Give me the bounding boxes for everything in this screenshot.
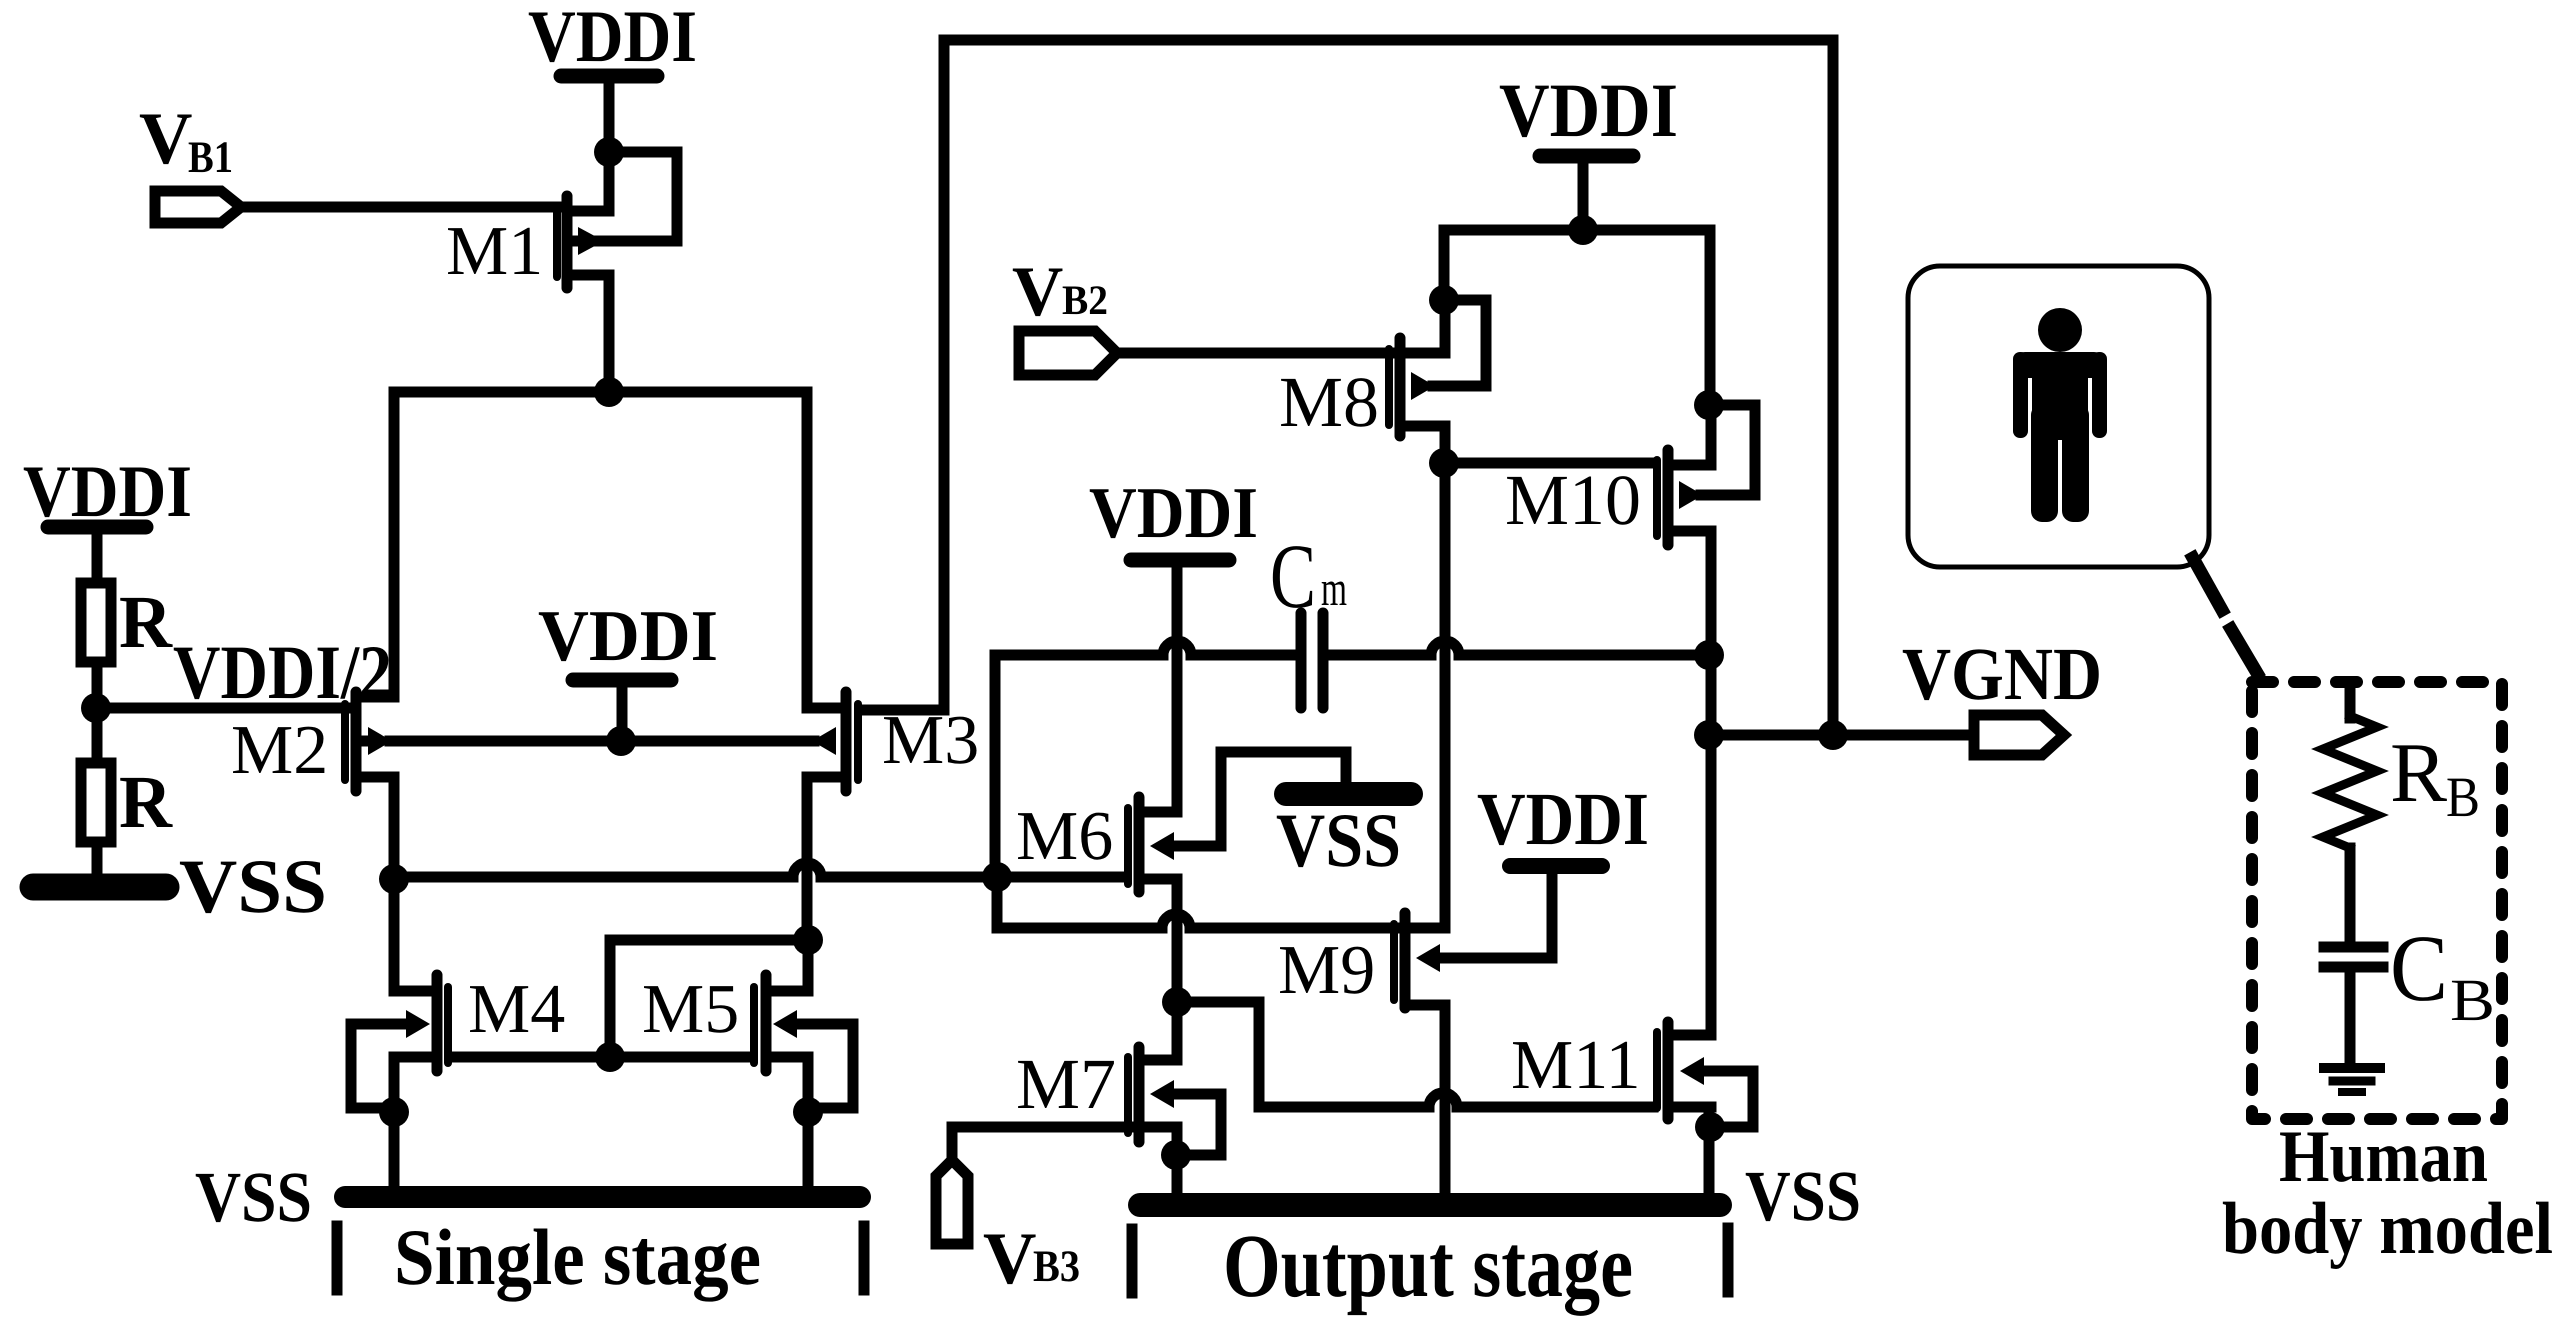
- resistor R (upper): [81, 583, 111, 662]
- wire VDDI/2 to M2 gate: [96, 703, 345, 714]
- label M10: [1505, 460, 1641, 540]
- label VSS (output stage): [1745, 1156, 1861, 1236]
- dashed box human body model: [2252, 682, 2502, 1119]
- label VDDI (divider): [23, 451, 192, 533]
- boundary tick left (single stage): [332, 1226, 343, 1290]
- wire M5 drain up to node F: [803, 940, 814, 991]
- boundary tick right (output stage): [1723, 1228, 1734, 1292]
- wire M8 drain chain down to M9: [1440, 463, 1451, 925]
- boundary tick right (single stage): [859, 1226, 870, 1290]
- svg-text:VDDI: VDDI: [1477, 778, 1649, 861]
- label Single stage: [394, 1214, 761, 1302]
- wire top feedback horizontal: [944, 40, 1833, 735]
- callout tail: [2193, 558, 2222, 610]
- node K (M7 source): [1161, 1140, 1191, 1170]
- svg-text:C: C: [1270, 525, 1316, 627]
- wire R1 to node: [92, 667, 103, 708]
- svg-text:VDDI/2: VDDI/2: [173, 629, 392, 715]
- wire M2 drain down: [389, 777, 400, 879]
- wire M8 bulk loop: [1433, 300, 1486, 386]
- wire M11 drain up to VGND node: [1706, 735, 1717, 1035]
- ground symbol (CB): [2324, 1068, 2380, 1092]
- label VB3: [983, 1218, 1080, 1300]
- ground VSS (output stage): [1140, 1193, 1720, 1217]
- label VDDI (M9 bulk): [1477, 778, 1649, 861]
- node I (M5 source): [793, 1097, 823, 1127]
- label M6: [1016, 798, 1113, 875]
- label VDDI (top left): [528, 0, 697, 78]
- wire bulk line to M3: [621, 736, 814, 747]
- svg-text:B1: B1: [188, 132, 233, 182]
- wire M3 drain down with hop: [802, 777, 813, 940]
- power symbol VDDI (middle): [573, 680, 671, 741]
- svg-text:VSS: VSS: [179, 843, 327, 929]
- transistor M6: [1128, 797, 1177, 892]
- svg-text:V: V: [1012, 253, 1063, 331]
- svg-text:R: R: [119, 581, 173, 664]
- svg-text:V: V: [983, 1218, 1036, 1300]
- power symbol VDDI (above M6): [1131, 553, 1229, 568]
- wire node N to M10 gate: [1444, 458, 1653, 469]
- wire M4 bulk loop: [351, 1024, 408, 1108]
- transistor M1: [557, 196, 609, 288]
- node P (M11 source): [1695, 1112, 1725, 1142]
- power symbol VDDI (resistor divider): [48, 527, 146, 578]
- wire M6 bulk to VSS symbol: [1172, 752, 1346, 846]
- node G (M4 source): [379, 1097, 409, 1127]
- svg-text:R: R: [2390, 726, 2447, 820]
- svg-text:M1: M1: [446, 213, 543, 290]
- node N (M8 drain / M10 gate): [1429, 448, 1459, 478]
- dashed connector: [2231, 629, 2257, 673]
- wire M4 drain up to node D: [389, 879, 400, 991]
- svg-text:M7: M7: [1016, 1044, 1116, 1124]
- wire node J to M11 gate: [1177, 1002, 1653, 1107]
- label M5: [642, 971, 739, 1048]
- svg-text:V: V: [139, 98, 192, 180]
- transistor M10: [1657, 450, 1711, 545]
- label M3: [882, 702, 979, 779]
- wire M5 source down: [803, 1057, 814, 1188]
- wire left branch down to M2 source: [389, 392, 400, 697]
- wire R2 to VSS: [92, 845, 103, 874]
- wire M10 drain down: [1706, 531, 1717, 655]
- node S (feedback tap): [1818, 720, 1848, 750]
- ground VSS (single stage): [345, 1186, 860, 1208]
- wire M5 gate tie: [610, 940, 808, 1057]
- transistor M11: [1657, 1022, 1711, 1119]
- wire M9 source down to VSS: [1440, 1005, 1451, 1195]
- wire M6 drain down: [1172, 879, 1183, 1060]
- svg-text:B: B: [2446, 766, 2480, 829]
- node VDDI/2: [81, 693, 111, 723]
- terminal VB2: [1019, 331, 1117, 375]
- node E (M6 gate junction): [982, 862, 1012, 892]
- terminal VB1: [155, 191, 241, 223]
- node H (gate tie M4 M5): [595, 1042, 625, 1072]
- label M1: [446, 213, 543, 290]
- node D (M2 drain junction): [379, 864, 409, 894]
- wire M3 gate to top feedback: [862, 40, 944, 710]
- svg-text:B2: B2: [1062, 278, 1108, 324]
- svg-text:VDDI: VDDI: [1089, 472, 1258, 553]
- node Q (rail / M10 drain): [1694, 640, 1724, 670]
- transistor M9: [1394, 913, 1445, 1008]
- wire M1 drain down: [604, 275, 615, 392]
- svg-text:B: B: [2450, 967, 2495, 1033]
- node J (M6 drain / M7 drain): [1162, 987, 1192, 1017]
- svg-text:Human: Human: [2279, 1116, 2488, 1198]
- label M4: [468, 971, 565, 1048]
- node B (M1 drain): [594, 377, 624, 407]
- label VDDI (above M6): [1089, 472, 1258, 553]
- wire M7 bulk loop: [1172, 1094, 1221, 1155]
- svg-text:M11: M11: [1511, 1027, 1641, 1104]
- svg-text:VGND: VGND: [1902, 633, 2102, 716]
- wire node to R2: [92, 708, 103, 758]
- svg-text:M4: M4: [468, 971, 565, 1048]
- transistor M2: [345, 692, 394, 791]
- svg-text:VSS: VSS: [1745, 1156, 1861, 1236]
- svg-text:VDDI: VDDI: [1499, 67, 1678, 153]
- label VB1: [139, 98, 233, 182]
- node R (VGND junction): [1694, 720, 1724, 750]
- wire M10 drain to VGND node: [1706, 655, 1717, 735]
- label M8: [1279, 362, 1379, 442]
- svg-text:VSS: VSS: [195, 1157, 312, 1237]
- power symbol VDDI (M9 bulk): [1510, 858, 1602, 874]
- svg-text:M5: M5: [642, 971, 739, 1048]
- capacitor CB: [2324, 947, 2383, 1066]
- svg-text:Output stage: Output stage: [1223, 1217, 1633, 1316]
- wire M4 M5 gate line: [452, 1052, 750, 1063]
- capacitor Cm: [1301, 613, 1323, 708]
- label VGND: [1902, 633, 2102, 716]
- node L (VDDI rail): [1568, 215, 1598, 245]
- svg-text:C: C: [2390, 915, 2448, 1021]
- wire M9 drain up (to M8): [1440, 925, 1451, 928]
- transistor M7: [1128, 1047, 1177, 1142]
- wire M11 source down: [1704, 1107, 1715, 1195]
- label R (upper): [119, 581, 173, 664]
- wire top rail M8 M10 sources: [1444, 230, 1710, 405]
- ground VSS (divider): [33, 874, 166, 901]
- terminal VB3: [936, 1160, 968, 1244]
- label M7: [1016, 1044, 1116, 1124]
- wire M10 source to node O: [1706, 405, 1717, 465]
- wire rail left branch down to M6 gate: [990, 655, 1001, 877]
- label M11: [1511, 1027, 1641, 1104]
- svg-text:VDDI: VDDI: [528, 0, 697, 78]
- wire M2 bulk line to VDDI node: [390, 736, 621, 747]
- svg-text:VDDI: VDDI: [538, 595, 718, 676]
- wire M1 bulk loop to source node: [600, 152, 677, 241]
- transistor M5: [754, 975, 808, 1071]
- resistor R (lower): [81, 763, 111, 842]
- label VB2: [1012, 253, 1108, 331]
- transistor M3: [807, 692, 858, 791]
- svg-text:m: m: [1321, 560, 1347, 616]
- human body box: [1908, 266, 2209, 567]
- label VSS (divider): [179, 843, 327, 929]
- svg-text:VDDI: VDDI: [23, 451, 192, 533]
- svg-text:body model: body model: [2222, 1188, 2553, 1270]
- wire M11 bulk loop: [1708, 1071, 1753, 1127]
- ground VSS (middle symbol): [1286, 782, 1411, 806]
- label VDDI (top right): [1499, 67, 1678, 153]
- svg-text:Single stage: Single stage: [394, 1214, 761, 1302]
- boundary tick left (output stage): [1127, 1229, 1138, 1293]
- wire first stage output (y877): [394, 863, 1124, 877]
- power symbol VDDI (top, M1 source): [561, 76, 657, 152]
- label VSS (middle): [1276, 797, 1401, 883]
- svg-text:M3: M3: [882, 702, 979, 779]
- wire VB3 to M7 gate: [952, 1127, 1128, 1160]
- resistor RB: [2323, 688, 2377, 942]
- terminal VGND: [1974, 715, 2064, 755]
- wire M5 bulk loop: [795, 1024, 853, 1108]
- wire M7 source down: [1172, 1127, 1183, 1195]
- svg-text:M2: M2: [231, 712, 328, 789]
- node O (M10 source): [1694, 390, 1724, 420]
- wire M8 drain down: [1440, 426, 1451, 463]
- wire M8 source to node M: [1440, 300, 1451, 353]
- label M2: [231, 712, 328, 789]
- label CB: [2390, 915, 2495, 1033]
- wire VDDI stem to M6 source (passes rail with hop): [1172, 566, 1183, 812]
- svg-text:M8: M8: [1279, 362, 1379, 442]
- label RB: [2390, 726, 2480, 829]
- wire right branch down to M3 source: [802, 392, 813, 708]
- node C (bulk tie VDDI): [606, 726, 636, 756]
- transistor M8: [1389, 338, 1445, 436]
- node F (M3 drain / M5 drain): [793, 925, 823, 955]
- svg-text:M9: M9: [1278, 932, 1375, 1009]
- svg-text:VSS: VSS: [1276, 797, 1401, 883]
- svg-text:B3: B3: [1033, 1241, 1080, 1291]
- svg-text:M6: M6: [1016, 798, 1113, 875]
- wire Cm rail (y655): [995, 641, 1709, 655]
- wire M1 source to node: [572, 152, 609, 211]
- wire M9 bulk to VDDI: [1438, 874, 1552, 958]
- label Human body model: [2222, 1116, 2553, 1270]
- label VSS (single stage): [195, 1157, 312, 1237]
- label M9: [1278, 932, 1375, 1009]
- label Output stage: [1223, 1217, 1633, 1316]
- label R (lower): [119, 761, 173, 844]
- svg-text:M10: M10: [1505, 460, 1641, 540]
- node M (M8 source): [1429, 285, 1459, 315]
- wire node B horizontal: [394, 387, 807, 398]
- svg-text:R: R: [119, 761, 173, 844]
- wire VGND output line: [1709, 730, 1974, 741]
- human figure: [2013, 308, 2107, 522]
- label Cm: [1270, 525, 1347, 627]
- transistor M4: [394, 975, 448, 1071]
- node A (M1 source / VDDI): [594, 137, 624, 167]
- label VDDI (middle): [538, 595, 718, 676]
- wire VB2 to M8 gate: [1117, 348, 1389, 359]
- wire M10 bulk loop: [1701, 405, 1755, 495]
- power symbol VDDI (top right): [1540, 156, 1633, 230]
- wire VB1 to M1 gate: [246, 202, 557, 213]
- wire M4 source down: [389, 1057, 400, 1188]
- label VDDI/2: [173, 629, 392, 715]
- wire node E down to M9 gate: [997, 877, 1394, 928]
